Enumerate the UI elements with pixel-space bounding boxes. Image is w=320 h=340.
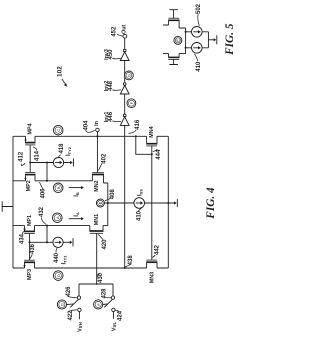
svg-text:G: G	[60, 303, 65, 306]
pointer squiggle 420	[98, 234, 103, 240]
svg-text:444: 444	[156, 149, 162, 160]
current source ISS 410	[134, 198, 145, 209]
svg-text:416: 416	[135, 119, 141, 130]
pointer squiggle 410	[138, 208, 141, 211]
inverter Inv2	[120, 85, 129, 94]
svg-text:MN3: MN3	[149, 272, 155, 283]
junction MN4/MN3 gate	[151, 153, 153, 155]
svg-text:MN4: MN4	[149, 126, 155, 137]
pointer squiggle 404	[86, 130, 95, 132]
pointer squiggle 440	[56, 248, 57, 253]
pointer squiggle 438	[125, 265, 130, 267]
node E circle with stub	[96, 199, 104, 207]
inverter Inv1	[120, 117, 129, 126]
pointer squiggle 406	[39, 182, 42, 189]
wire Inv2 to Inv3	[124, 61, 126, 83]
junction MP1/MP3 gate bias	[29, 241, 31, 243]
svg-text:ITY1: ITY1	[61, 255, 67, 265]
FIG5 transistor top	[163, 10, 186, 28]
svg-text:B: B	[56, 186, 61, 189]
svg-text:424: 424	[117, 310, 123, 321]
pointer squiggle 424	[115, 310, 119, 312]
wire bias line py=162.5	[30, 162, 53, 164]
svg-text:402: 402	[102, 153, 108, 164]
pointer squiggle 410 FIG.5	[194, 54, 198, 61]
svg-text:408: 408	[110, 189, 116, 200]
FIG5 left bus	[185, 28, 187, 54]
pointer squiggle 444	[153, 149, 158, 152]
junction bias2 drop bottom	[46, 241, 48, 243]
junction In line / MN4 gate	[135, 135, 137, 137]
junction tail / VSS rail	[167, 202, 169, 204]
pointer squiggle 448	[112, 89, 121, 92]
node circle C	[53, 125, 63, 135]
wire output vertical 438 to Inv1	[124, 125, 126, 268]
junction FIG.5 bus bottom	[185, 47, 187, 49]
svg-text:MP2: MP2	[26, 180, 32, 191]
wire Inv3 to Out	[124, 38, 126, 49]
junction switch branch	[96, 283, 98, 285]
current source 410 fig5	[192, 43, 203, 54]
svg-text:446: 446	[108, 111, 114, 122]
node In terminal	[96, 128, 100, 132]
pointer squiggle 428	[105, 296, 111, 298]
pointer squiggle 426	[67, 296, 77, 298]
svg-text:C: C	[56, 129, 61, 132]
svg-text:ITY2: ITY2	[66, 146, 72, 156]
wire switch branch py=284	[79, 283, 113, 285]
svg-text:VtrL: VtrL	[111, 321, 117, 331]
wire VSS rail (right vertical)	[167, 136, 169, 268]
svg-text:G: G	[127, 74, 132, 77]
node circle F switch	[94, 300, 103, 309]
pointer squiggle 442	[152, 255, 155, 257]
svg-text:448: 448	[108, 80, 114, 91]
node circle F	[127, 99, 136, 108]
svg-text:452: 452	[112, 26, 118, 37]
wire 440 to terminal	[63, 241, 70, 243]
wire MP1/MP3 gate lead	[29, 234, 31, 261]
current source ITY1 440	[53, 237, 63, 247]
svg-text:A: A	[55, 216, 60, 219]
svg-text:422: 422	[68, 310, 74, 321]
svg-text:In: In	[94, 121, 100, 126]
junction node E tail	[107, 202, 109, 204]
node circle G	[124, 71, 133, 80]
svg-text:E: E	[175, 39, 180, 42]
svg-text:410: 410	[196, 61, 202, 72]
svg-text:FIG. 5: FIG. 5	[224, 23, 236, 56]
svg-text:FIG. 4: FIG. 4	[205, 187, 217, 220]
wire bottom output line (py=268)	[13, 267, 168, 269]
pointer squiggle 434	[22, 231, 25, 234]
label 102 arrow	[62, 79, 66, 85]
svg-text:MP3: MP3	[27, 269, 33, 280]
svg-text:MP4: MP4	[28, 123, 34, 134]
pointer squiggle 502	[198, 14, 200, 26]
wire bias2 line py=242.3	[30, 241, 53, 243]
svg-text:418: 418	[59, 143, 65, 154]
svg-text:410: 410	[136, 210, 142, 221]
junction FIG.5 bus top	[185, 31, 187, 33]
junction MP4/MP2 gate bias	[29, 161, 31, 163]
wire MN4 gate gamma path	[136, 136, 152, 154]
svg-text:438: 438	[128, 255, 134, 266]
wire MP1 drain line py=225.6	[13, 225, 90, 227]
junction node B wire	[46, 180, 48, 182]
pointer squiggle 408	[105, 198, 111, 201]
node circle D	[53, 271, 63, 281]
wire MN1 right corner	[103, 225, 108, 227]
wire bias drop px=47 (162.5 to 180.8)	[46, 163, 48, 181]
transistor MP1	[23, 226, 35, 234]
pointer squiggle 402	[98, 163, 102, 170]
svg-text:406: 406	[40, 188, 46, 199]
svg-text:440: 440	[54, 252, 60, 263]
wire In line (top horizontal py=136.3)	[13, 135, 168, 137]
svg-text:VtrH: VtrH	[77, 322, 83, 332]
wire tail line py=203	[108, 202, 175, 204]
junction bias drop top	[46, 161, 48, 163]
wire MN2 gate lead from In	[96, 132, 98, 173]
junction In line / MN2 gate	[96, 135, 98, 137]
FIG5 dots	[185, 31, 187, 49]
pointer squiggle 430	[97, 273, 100, 277]
svg-text:MP1: MP1	[27, 215, 33, 226]
wire Inv1 to Inv2	[124, 94, 126, 114]
pointer squiggle 436	[30, 254, 33, 259]
node circle B	[53, 183, 63, 193]
svg-text:IB: IB	[74, 192, 80, 197]
svg-text:MN2: MN2	[94, 180, 100, 191]
svg-text:ISS: ISS	[137, 189, 143, 196]
wire MN4/MN3 gate vertical	[151, 146, 153, 260]
svg-text:430: 430	[98, 272, 104, 283]
pointer squiggles	[21, 14, 199, 312]
node circle A	[53, 213, 63, 223]
svg-text:414: 414	[35, 150, 41, 161]
wire MP2 source/drain line py=180.8	[13, 180, 92, 182]
wire MN2 drain corner to E vertical	[104, 183, 108, 226]
svg-text:E: E	[98, 201, 103, 204]
FIG5 right bus + out terminal	[208, 32, 213, 48]
text labels (rotated)	[18, 3, 236, 331]
pointer squiggle 414	[33, 147, 36, 151]
transistor MN3	[146, 260, 157, 268]
junction node A wire	[46, 225, 48, 227]
node circle E fig5	[174, 36, 182, 44]
transistor MP4	[24, 136, 35, 145]
junction dots	[29, 135, 170, 285]
svg-text:MN1: MN1	[94, 214, 100, 225]
pointer squiggle 422	[69, 310, 77, 311]
inverter Inv3	[120, 52, 129, 61]
pointer squiggle 412	[21, 163, 25, 165]
svg-text:428: 428	[101, 288, 107, 299]
svg-text:412: 412	[18, 151, 24, 162]
current source ITY2 418	[53, 157, 63, 167]
svg-text:102: 102	[57, 66, 64, 77]
svg-text:432: 432	[39, 206, 45, 217]
node letters	[55, 39, 180, 306]
transistor MN4	[146, 136, 157, 146]
junction output line 438	[124, 267, 126, 269]
switch 422 VtrH left	[78, 284, 80, 296]
switch 424 VtrL right	[112, 284, 114, 296]
pointer squiggle 418	[58, 155, 61, 159]
svg-text:434: 434	[19, 233, 25, 244]
pointer squiggle 450	[112, 57, 121, 60]
node Out terminal	[123, 34, 127, 38]
pointer squiggle 416	[128, 130, 136, 134]
VDD supply terminal T	[2, 201, 13, 212]
svg-text:436: 436	[30, 243, 36, 254]
svg-text:450: 450	[108, 49, 114, 60]
svg-text:502: 502	[196, 3, 202, 14]
terminal arrow VSS	[174, 201, 177, 204]
wire MP4/MP2 gate lead	[29, 145, 31, 173]
svg-text:D: D	[56, 274, 61, 277]
svg-text:420: 420	[102, 239, 108, 250]
transistor MP3	[23, 260, 35, 268]
arrow IA	[69, 218, 82, 220]
svg-text:426: 426	[66, 286, 72, 297]
current source 502	[192, 27, 203, 38]
svg-text:Out: Out	[121, 24, 127, 33]
wire VDD rail (left vertical)	[12, 136, 14, 268]
pointer squiggle 452	[117, 34, 123, 36]
node circle G switch	[57, 300, 66, 309]
svg-text:442: 442	[155, 244, 161, 255]
pointer squiggle 446	[112, 120, 121, 123]
transistor MN2	[92, 173, 104, 183]
wire MN1 gate lead down	[96, 233, 98, 284]
transistor MN1	[89, 226, 103, 234]
pointer squiggle 432	[41, 218, 46, 225]
wire 418 to terminal	[64, 162, 71, 164]
svg-text:404: 404	[83, 120, 89, 131]
wire bias2 drop px=47	[46, 226, 48, 243]
FIG5 transistor bottom	[163, 54, 186, 65]
transistor MP2	[24, 172, 35, 180]
svg-text:IA: IA	[74, 212, 80, 217]
arrow IB	[69, 187, 82, 189]
